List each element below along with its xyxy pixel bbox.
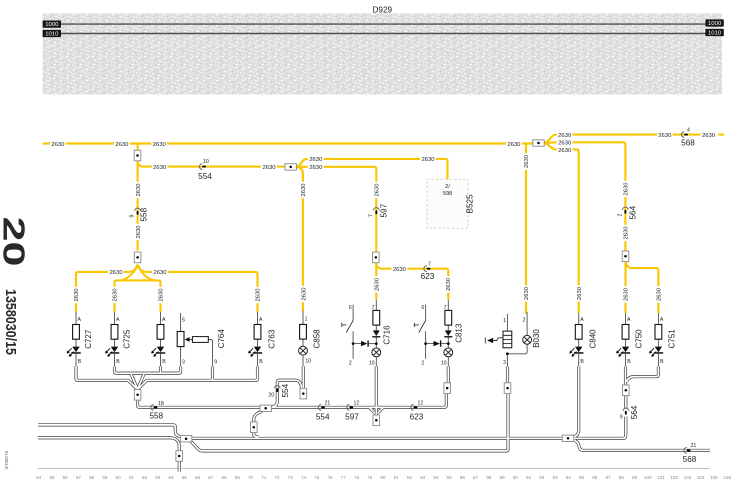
lead C763 bbox=[257, 312, 259, 367]
svg-text:2630: 2630 bbox=[558, 148, 572, 154]
wire 2630 right fan outer from box6 to C763 bbox=[138, 265, 258, 313]
lead switch of C716 bbox=[353, 305, 361, 359]
svg-text:64: 64 bbox=[169, 475, 175, 480]
resistor C858 bbox=[300, 324, 307, 339]
label 2630 bbox=[308, 164, 324, 172]
svg-text:12: 12 bbox=[354, 400, 360, 406]
label 2630 v bbox=[373, 182, 381, 198]
svg-text:2630: 2630 bbox=[153, 165, 167, 171]
svg-text:3: 3 bbox=[503, 360, 506, 366]
svg-text:61: 61 bbox=[129, 475, 135, 480]
svg-text:2630: 2630 bbox=[421, 157, 435, 163]
svg-text:87: 87 bbox=[473, 475, 479, 480]
connection point box C813 bbox=[444, 383, 451, 394]
wire C751 drop merge bbox=[627, 366, 659, 382]
diode C716 bbox=[372, 330, 380, 337]
svg-text:EL0001/6: EL0001/6 bbox=[4, 451, 9, 470]
svg-text:63: 63 bbox=[155, 475, 161, 480]
svg-text:90: 90 bbox=[513, 475, 519, 480]
svg-text:A: A bbox=[162, 317, 166, 323]
wire 2630 stub right end bbox=[718, 134, 724, 136]
svg-text:C727: C727 bbox=[84, 329, 93, 349]
label 2630 v bbox=[523, 285, 531, 301]
wire C858 drop bbox=[302, 366, 305, 389]
connection point box B030 bbox=[504, 383, 511, 394]
connector 623 pin12 bbox=[410, 400, 424, 421]
svg-text:7: 7 bbox=[372, 305, 375, 311]
svg-text:88: 88 bbox=[486, 475, 492, 480]
svg-text:10: 10 bbox=[203, 159, 209, 165]
wire 2630 main feed y143.5 bbox=[43, 142, 533, 144]
connector 568 pin4 bbox=[681, 127, 695, 147]
wire B-bus lower merge right C763 bbox=[138, 366, 257, 388]
label 2630 v bbox=[300, 286, 308, 302]
svg-text:597: 597 bbox=[380, 203, 389, 217]
wire funnel right bbox=[138, 373, 144, 387]
svg-text:C750: C750 bbox=[635, 329, 644, 349]
svg-text:103: 103 bbox=[684, 475, 692, 480]
lead C813 bbox=[447, 300, 449, 367]
label 2630 bbox=[261, 163, 277, 171]
svg-text:72: 72 bbox=[274, 475, 280, 480]
svg-text:2630: 2630 bbox=[558, 133, 572, 139]
svg-text:2630: 2630 bbox=[256, 288, 262, 302]
wire bus slant right into C716 drop bbox=[378, 408, 383, 413]
svg-text:20: 20 bbox=[0, 217, 32, 267]
label 2630 v bbox=[655, 286, 663, 302]
rheostat C764 wiper arrow bbox=[185, 337, 190, 342]
label 2630 v bbox=[73, 287, 81, 303]
svg-text:2630: 2630 bbox=[115, 142, 129, 148]
svg-text:A: A bbox=[627, 317, 631, 323]
wire B-bus lower merge left C727 bbox=[76, 366, 137, 388]
rheostat C764 body bbox=[177, 332, 184, 347]
svg-text:97: 97 bbox=[605, 475, 611, 480]
svg-text:62: 62 bbox=[142, 475, 148, 480]
svg-text:2630: 2630 bbox=[159, 288, 165, 302]
svg-text:1000: 1000 bbox=[45, 22, 59, 28]
svg-text:74: 74 bbox=[301, 475, 307, 480]
lamp C716 bbox=[372, 348, 381, 357]
svg-text:93: 93 bbox=[553, 475, 559, 480]
resistor C840 bbox=[575, 325, 582, 340]
lead C716 bbox=[375, 300, 377, 367]
svg-text:60: 60 bbox=[116, 475, 122, 480]
svg-text:2: 2 bbox=[617, 214, 623, 217]
wire C813 drop bbox=[447, 366, 450, 382]
svg-text:10: 10 bbox=[305, 359, 311, 365]
wire 2630 fan mid to 564 drop bbox=[544, 142, 625, 251]
svg-text:6: 6 bbox=[349, 305, 352, 311]
svg-text:C763: C763 bbox=[268, 329, 277, 349]
svg-text:4: 4 bbox=[687, 127, 690, 133]
label 2630 bbox=[308, 156, 324, 164]
wire 2630 from box3 upper to B525 bbox=[297, 159, 448, 179]
svg-text:2630: 2630 bbox=[624, 287, 630, 301]
LED C763 bbox=[249, 347, 263, 357]
svg-text:1010: 1010 bbox=[45, 32, 59, 38]
svg-text:D929: D929 bbox=[373, 6, 393, 15]
label 2630 bbox=[506, 140, 522, 148]
connector 558 pin9 bbox=[130, 207, 149, 221]
wire ground bus 407 bbox=[138, 394, 447, 407]
svg-text:2630: 2630 bbox=[624, 226, 630, 240]
label 2630 bbox=[108, 269, 124, 277]
svg-text:2: 2 bbox=[421, 360, 424, 366]
svg-text:1358030/15: 1358030/15 bbox=[2, 289, 19, 355]
svg-text:B: B bbox=[580, 359, 584, 365]
connector 597 pin7 bbox=[368, 203, 388, 217]
svg-text:55: 55 bbox=[49, 475, 55, 480]
svg-text:1000: 1000 bbox=[708, 21, 722, 27]
connection point boxG bbox=[180, 436, 191, 442]
connector 554 pin10 bbox=[198, 159, 212, 181]
diode C813 bbox=[444, 330, 452, 337]
svg-text:83: 83 bbox=[420, 475, 426, 480]
lead B030 lamp bbox=[507, 312, 527, 354]
connection point box3 bbox=[285, 164, 296, 170]
svg-text:95: 95 bbox=[579, 475, 585, 480]
label 2630 v bbox=[134, 224, 142, 240]
svg-text:2630: 2630 bbox=[136, 225, 142, 239]
svg-text:564: 564 bbox=[629, 205, 638, 219]
terminal box C716 bbox=[373, 415, 380, 426]
label 2630 v bbox=[523, 153, 531, 169]
svg-text:623: 623 bbox=[410, 412, 424, 421]
chime B030 body bbox=[503, 331, 512, 348]
connection point box2 bbox=[533, 140, 544, 146]
connection point boxE bus bbox=[260, 405, 271, 411]
svg-text:1010: 1010 bbox=[708, 31, 722, 37]
lead C840 bbox=[578, 313, 580, 367]
wire 2630 branch from box1 to 554 pin10 bbox=[138, 161, 285, 167]
wire 2630 fan top to 568 bbox=[544, 135, 712, 143]
svg-text:B030: B030 bbox=[532, 329, 541, 348]
wire line B from left edge to ground box bbox=[38, 438, 179, 451]
svg-text:100: 100 bbox=[644, 475, 652, 480]
svg-text:2630: 2630 bbox=[153, 270, 167, 276]
wire W to 564 riser bbox=[573, 422, 626, 438]
wire 1000 bbox=[43, 19, 724, 28]
resistor C763 bbox=[254, 325, 261, 340]
resistor lamp unit 3 bbox=[157, 325, 164, 340]
svg-text:9: 9 bbox=[620, 414, 623, 420]
svg-text:10: 10 bbox=[369, 360, 375, 366]
lead C858 bbox=[302, 311, 304, 367]
wire 2630 stub into box1 bbox=[137, 144, 139, 151]
label 2630 bbox=[152, 269, 168, 277]
wire C750 drop bbox=[624, 366, 627, 385]
svg-text:C725: C725 bbox=[123, 329, 132, 349]
LED C751 bbox=[649, 347, 663, 357]
label 2630 v bbox=[445, 276, 453, 292]
svg-text:71: 71 bbox=[261, 475, 267, 480]
diode switch C716 bbox=[361, 340, 369, 346]
svg-text:68: 68 bbox=[222, 475, 228, 480]
svg-text:56: 56 bbox=[63, 475, 69, 480]
wire 2630 from box4 down to C750 bbox=[624, 261, 626, 313]
svg-text:598: 598 bbox=[443, 191, 452, 197]
lead C750 bbox=[625, 313, 627, 367]
svg-text:81: 81 bbox=[394, 475, 400, 480]
svg-text:623: 623 bbox=[421, 272, 435, 281]
wire 564 chain lower bbox=[624, 417, 627, 423]
svg-text:568: 568 bbox=[681, 139, 695, 148]
svg-text:6: 6 bbox=[421, 305, 424, 311]
wire line 438 G to W bbox=[191, 437, 562, 440]
connection point boxF bbox=[251, 422, 258, 433]
wire B-bus upper merge C725-C764p3 bbox=[115, 366, 181, 373]
svg-text:70: 70 bbox=[248, 475, 254, 480]
label 2630 bbox=[701, 131, 717, 139]
resistor C750 bbox=[622, 325, 629, 340]
svg-text:B: B bbox=[627, 359, 631, 365]
svg-text:B: B bbox=[162, 359, 166, 365]
svg-text:2630: 2630 bbox=[262, 165, 276, 171]
wire W to 568 line451 bbox=[573, 440, 710, 450]
connector 623 pin7 bbox=[421, 261, 435, 281]
connection point boxW bbox=[562, 435, 573, 441]
svg-text:5: 5 bbox=[182, 317, 185, 323]
connector 554 pin21 bbox=[316, 400, 331, 421]
connection point box 564 chain bbox=[623, 385, 630, 396]
svg-text:1: 1 bbox=[305, 316, 308, 322]
svg-text:7: 7 bbox=[428, 261, 431, 267]
svg-text:76: 76 bbox=[327, 475, 333, 480]
svg-text:66: 66 bbox=[195, 475, 201, 480]
wire funnel left bbox=[131, 373, 137, 387]
svg-text:554: 554 bbox=[316, 412, 330, 421]
shield band D929 bbox=[43, 13, 722, 94]
svg-text:101: 101 bbox=[657, 475, 665, 480]
svg-text:102: 102 bbox=[670, 475, 678, 480]
connector 558 pin18 bbox=[149, 401, 163, 420]
svg-text:21: 21 bbox=[325, 400, 331, 406]
wire line A from left edge bbox=[38, 425, 180, 437]
svg-text:7: 7 bbox=[444, 305, 447, 311]
svg-text:2630: 2630 bbox=[309, 157, 323, 163]
lead lamp unit 3 bbox=[160, 312, 162, 367]
connector 554 pin20 bbox=[268, 383, 290, 398]
node switch C813 bbox=[424, 342, 427, 345]
svg-text:2630: 2630 bbox=[309, 165, 323, 171]
svg-text:85: 85 bbox=[447, 475, 453, 480]
svg-text:558: 558 bbox=[149, 411, 163, 420]
svg-text:80: 80 bbox=[380, 475, 386, 480]
svg-text:78: 78 bbox=[354, 475, 360, 480]
label 2630 bbox=[557, 146, 573, 154]
connector 564 pin9 bbox=[620, 405, 639, 420]
LED C750 bbox=[617, 347, 631, 357]
chime B030 striker arrow bbox=[485, 338, 503, 344]
label 2630 v bbox=[622, 225, 630, 241]
svg-text:2: 2 bbox=[349, 360, 352, 366]
switch blade C813 bbox=[414, 321, 425, 333]
wire 2630 branch 623 from C716 drop to C813 drop bbox=[376, 262, 449, 300]
terminal box C858 bbox=[300, 388, 307, 399]
control unit B525 bbox=[427, 179, 475, 228]
svg-text:1: 1 bbox=[503, 318, 506, 324]
lamp C858 bbox=[299, 346, 308, 355]
svg-text:105: 105 bbox=[710, 475, 718, 480]
connection point box5 C716 bbox=[373, 252, 380, 263]
resistor C727 bbox=[73, 325, 80, 340]
wire 2630 left fan outer from box6 bbox=[76, 265, 138, 313]
svg-text:2630: 2630 bbox=[51, 142, 65, 148]
label 2630 v bbox=[622, 286, 630, 302]
svg-text:91: 91 bbox=[526, 475, 532, 480]
svg-text:21: 21 bbox=[691, 443, 697, 449]
lead C727 bbox=[75, 312, 77, 367]
svg-text:554: 554 bbox=[198, 172, 212, 181]
svg-text:B: B bbox=[116, 359, 120, 365]
wire 2630 inner fan left to C725 bbox=[121, 265, 138, 281]
svg-text:568: 568 bbox=[683, 455, 697, 464]
connection point box6 left fan bbox=[134, 252, 141, 263]
LED C725 bbox=[106, 347, 120, 357]
svg-text:9: 9 bbox=[130, 215, 136, 218]
switch blade C716 bbox=[342, 321, 353, 333]
lead C751 bbox=[657, 313, 659, 367]
lead B030 chime pin1 pin3 bbox=[506, 314, 508, 367]
LED C840 bbox=[570, 347, 584, 357]
svg-text:2630: 2630 bbox=[302, 287, 308, 301]
wire 2630 drop to B030 bbox=[525, 144, 527, 314]
label 2630 bbox=[657, 131, 673, 139]
svg-text:C751: C751 bbox=[668, 329, 677, 349]
node B030 bbox=[506, 352, 509, 355]
svg-text:7: 7 bbox=[368, 214, 374, 217]
label 2630 v bbox=[622, 181, 630, 197]
LED lamp unit 3 bbox=[152, 347, 166, 357]
wire 2630 fan bottom to C840 drop bbox=[544, 143, 578, 313]
wire center drop to box bbox=[136, 387, 139, 390]
lead switch of C813 bbox=[426, 305, 434, 359]
svg-text:2630: 2630 bbox=[624, 182, 630, 196]
label 2630 bbox=[392, 266, 408, 274]
svg-text:2630: 2630 bbox=[375, 183, 381, 197]
wire B030 upper drop bbox=[506, 366, 509, 382]
svg-text:B: B bbox=[259, 359, 263, 365]
svg-text:A: A bbox=[660, 317, 664, 323]
svg-text:2630: 2630 bbox=[524, 154, 530, 168]
svg-text:B: B bbox=[78, 359, 82, 365]
svg-text:59: 59 bbox=[102, 475, 108, 480]
ground box H bbox=[176, 451, 183, 462]
svg-text:554: 554 bbox=[281, 383, 290, 397]
svg-text:54: 54 bbox=[36, 475, 42, 480]
svg-text:69: 69 bbox=[235, 475, 241, 480]
wire 564 chain upper bbox=[624, 395, 627, 409]
svg-text:2630: 2630 bbox=[507, 142, 521, 148]
svg-text:2630: 2630 bbox=[577, 286, 583, 300]
svg-text:C840: C840 bbox=[588, 329, 597, 349]
wire C716 drop through bus bbox=[375, 366, 378, 415]
label 2630 bbox=[420, 156, 436, 164]
svg-text:C858: C858 bbox=[313, 329, 322, 349]
label 2630 bbox=[557, 131, 573, 139]
svg-text:94: 94 bbox=[566, 475, 572, 480]
svg-text:96: 96 bbox=[592, 475, 598, 480]
wire 2630 from box3 straight to C716 drop bbox=[297, 167, 377, 300]
svg-text:2630: 2630 bbox=[301, 183, 307, 197]
label 2630 v bbox=[157, 287, 165, 303]
wire ground box drop to rail bbox=[178, 461, 181, 471]
resistor C725 bbox=[111, 325, 118, 340]
wire C764 pin9 drop bbox=[211, 366, 214, 380]
lead C725 bbox=[114, 312, 116, 367]
wire 2630 inner pair horizontal bbox=[115, 280, 161, 312]
svg-text:84: 84 bbox=[433, 475, 439, 480]
lamp B030 bbox=[523, 335, 532, 344]
svg-text:65: 65 bbox=[182, 475, 188, 480]
wire 1010 bbox=[43, 29, 724, 38]
svg-text:2630: 2630 bbox=[113, 288, 119, 302]
svg-text:C716: C716 bbox=[382, 325, 391, 345]
svg-text:A: A bbox=[78, 317, 82, 323]
svg-text:104: 104 bbox=[697, 475, 705, 480]
svg-text:564: 564 bbox=[630, 405, 639, 419]
lead C764 pin5 pin3 pin9 bbox=[181, 313, 213, 367]
svg-text:2630: 2630 bbox=[393, 267, 407, 273]
svg-text:C813: C813 bbox=[454, 323, 463, 343]
svg-text:558: 558 bbox=[140, 207, 149, 221]
diode switch C813 bbox=[434, 340, 442, 346]
wire drop from bus box E to line438 bbox=[254, 411, 263, 437]
svg-text:99: 99 bbox=[632, 475, 638, 480]
svg-text:2630: 2630 bbox=[658, 133, 672, 139]
label 2630 v bbox=[575, 285, 583, 301]
svg-text:10: 10 bbox=[441, 360, 447, 366]
label 2630 bbox=[151, 140, 167, 148]
wire 2630 inner fan right bbox=[138, 265, 155, 281]
label 2630 v bbox=[300, 182, 308, 198]
svg-text:106: 106 bbox=[723, 475, 731, 480]
label 2630 v bbox=[254, 287, 262, 303]
lamp C813 bbox=[444, 348, 453, 357]
label 2630 v bbox=[373, 276, 381, 292]
svg-text:2: 2 bbox=[523, 318, 526, 324]
connector 597 pin12 bbox=[345, 400, 359, 421]
svg-text:A: A bbox=[580, 317, 584, 323]
svg-text:597: 597 bbox=[345, 412, 359, 421]
label 2630 bbox=[50, 140, 66, 148]
svg-text:2630: 2630 bbox=[153, 142, 167, 148]
label 2630 bbox=[557, 139, 573, 147]
resistor C716 bbox=[373, 310, 380, 325]
wire 2630 drop from box1 down bbox=[137, 161, 139, 251]
node C813 lamp bbox=[447, 342, 450, 345]
node switch C716 bbox=[352, 342, 355, 345]
svg-text:C764: C764 bbox=[217, 329, 226, 349]
wire 2630 branch from box4 to C751 bbox=[626, 261, 659, 313]
svg-text:86: 86 bbox=[460, 475, 466, 480]
node C716 lamp bbox=[375, 342, 378, 345]
ground rail bbox=[38, 468, 710, 470]
connection point box1 bbox=[134, 150, 141, 161]
rheostat C764 series resistor bbox=[192, 337, 208, 343]
ruler numbers bbox=[36, 475, 731, 480]
wire 2630 from box3 down to C858 bbox=[297, 167, 303, 311]
connection point box4 564 bbox=[622, 251, 629, 262]
svg-text:92: 92 bbox=[539, 475, 545, 480]
LED C727 bbox=[67, 347, 81, 357]
svg-text:77: 77 bbox=[341, 475, 347, 480]
svg-text:2630: 2630 bbox=[110, 270, 124, 276]
svg-text:2630: 2630 bbox=[702, 133, 716, 139]
svg-text:82: 82 bbox=[407, 475, 413, 480]
svg-text:18: 18 bbox=[158, 401, 164, 407]
